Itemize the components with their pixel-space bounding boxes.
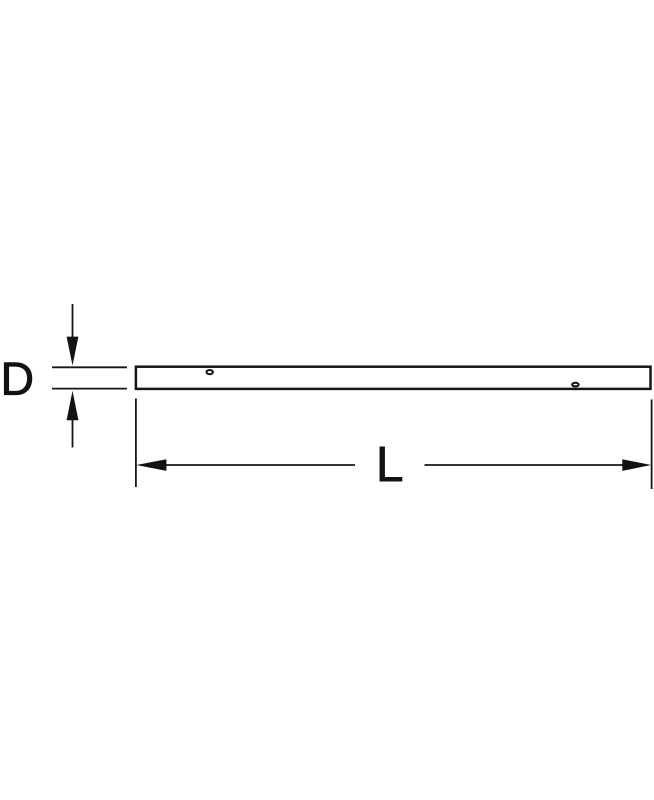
D dimension: upper leader line xyxy=(72,304,74,345)
D dimension: lower leader line xyxy=(72,412,74,448)
hole 2 (right hole in tube) xyxy=(572,383,579,387)
D label xyxy=(4,363,32,395)
L dimension: left arrowhead (points left) xyxy=(136,459,166,471)
tube body (long bar) xyxy=(136,367,651,389)
L dimension: left extension line xyxy=(135,399,137,488)
L dimension: right line segment xyxy=(425,464,638,466)
L dimension: right extension line xyxy=(651,400,653,490)
D dimension: bottom extension line xyxy=(52,388,127,390)
hole 1 (left hole in tube) xyxy=(207,370,213,374)
L label xyxy=(380,447,402,481)
L dimension: left line segment xyxy=(150,464,355,466)
D dimension: lower arrowhead (points up) xyxy=(67,391,79,420)
D dimension: top extension line xyxy=(52,366,127,368)
D dimension: upper arrowhead (points down) xyxy=(67,337,79,366)
L dimension: right arrowhead (points right) xyxy=(622,459,651,471)
